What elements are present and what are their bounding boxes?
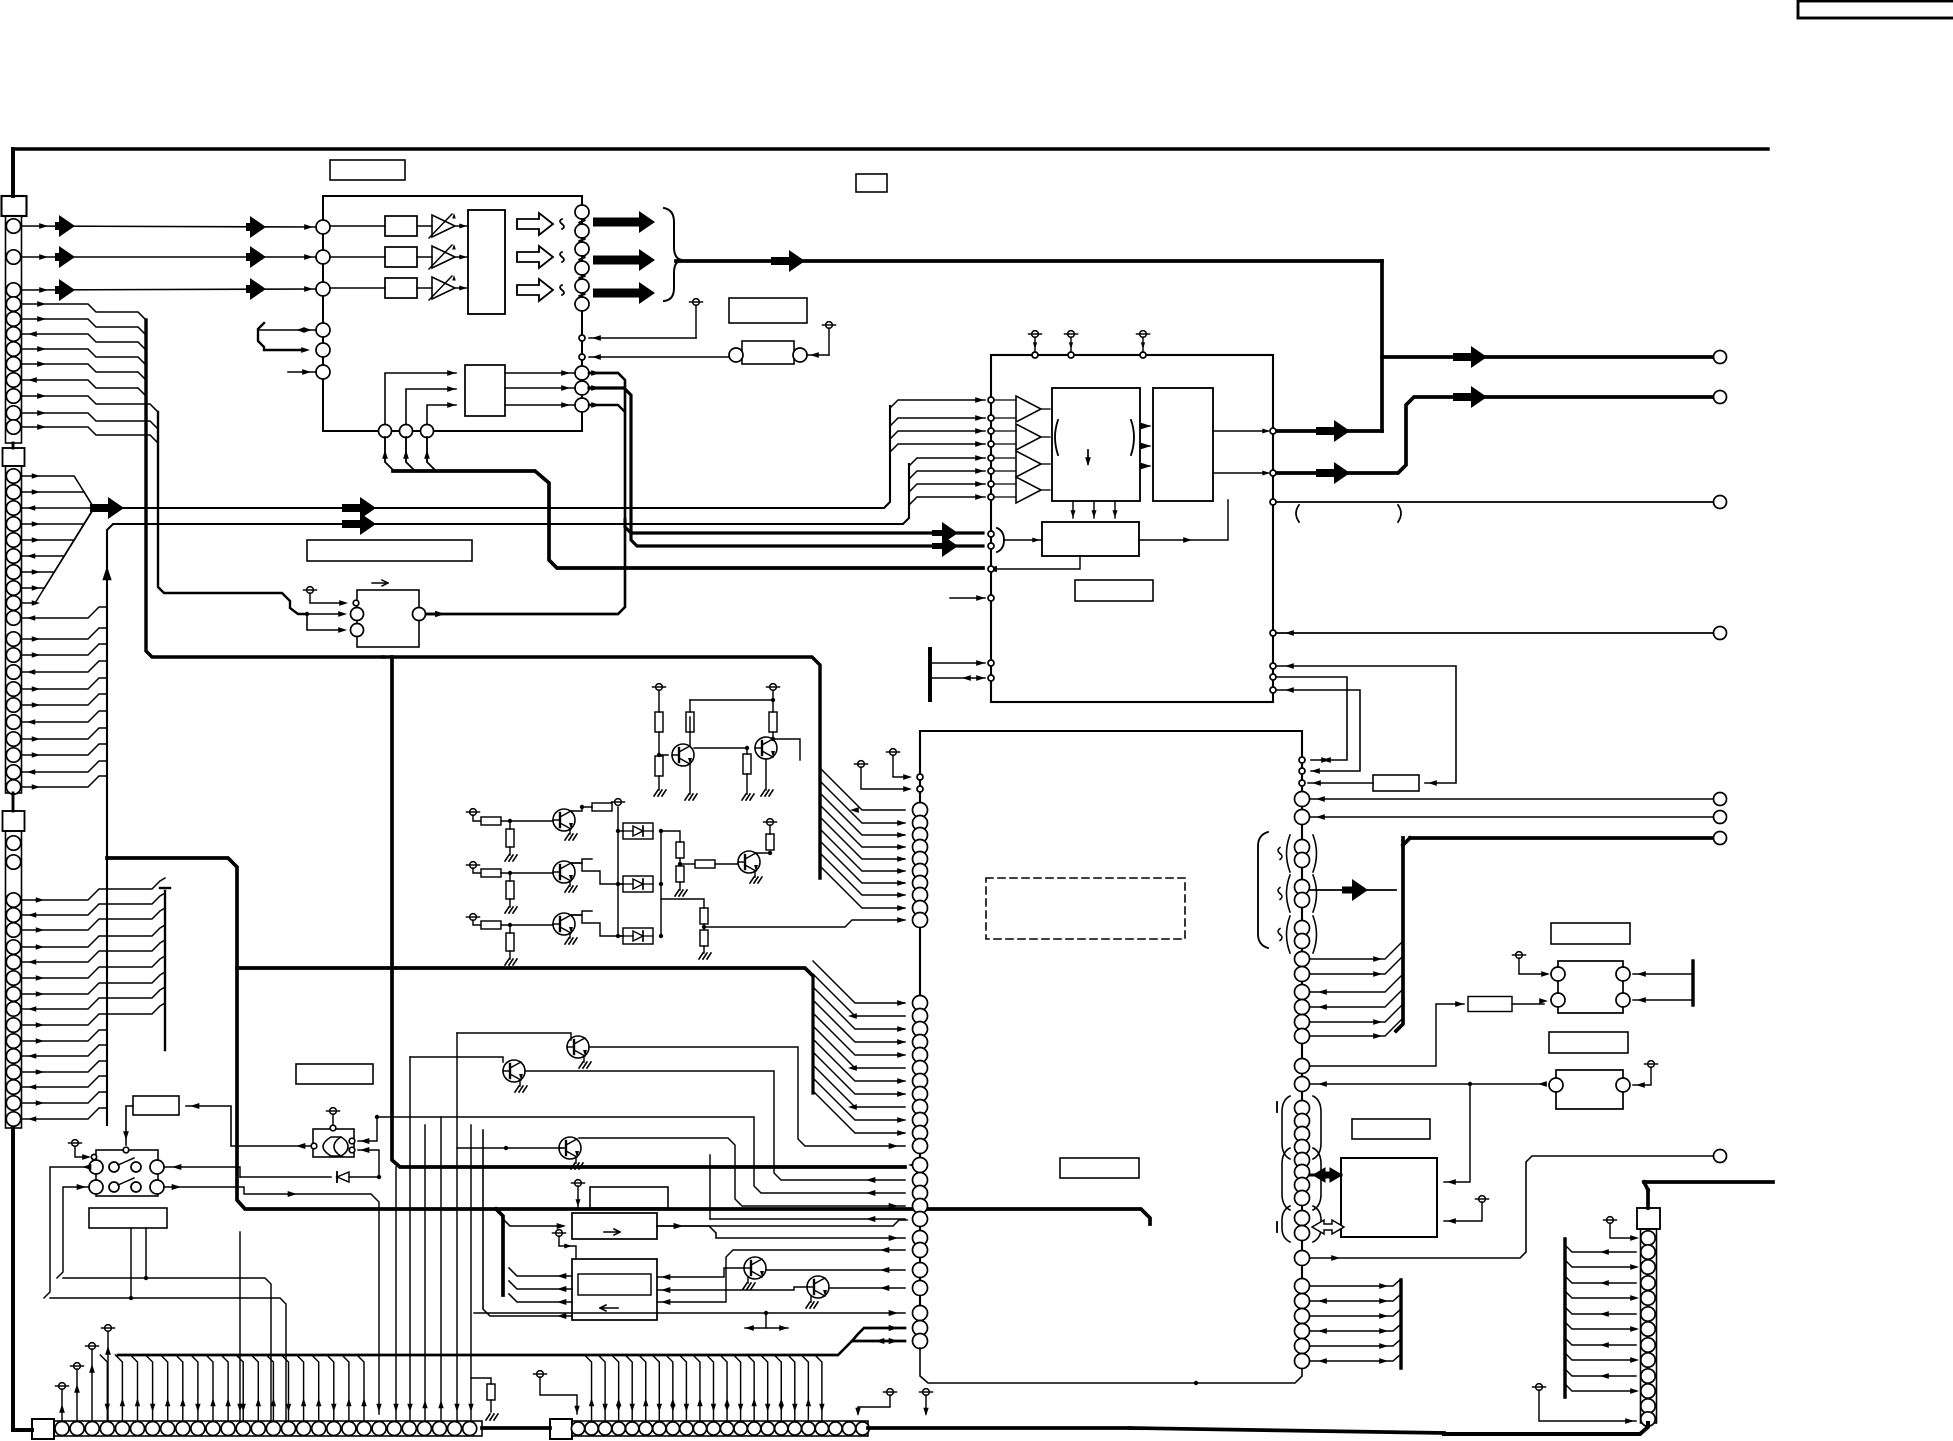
wire Q1 collector link (690, 699, 773, 701)
wire box3 to pin 1238 (657, 1226, 905, 1238)
wire fan to pin y1029 (813, 987, 905, 1029)
block U2 outline (991, 355, 1273, 702)
connector CN1 pin y427 (6, 420, 20, 434)
block U1 bottom pin 1 (575, 366, 589, 380)
wire Q3 collector (570, 807, 592, 811)
box4 servo eq (572, 1259, 657, 1320)
wire riser x131 (130, 1228, 132, 1298)
wire U2 to terminal y502 (1276, 501, 1714, 503)
block U2 SDRAM (1042, 522, 1139, 556)
block U3 left pin y810 (913, 803, 928, 818)
block U3 right pin y974 (1295, 967, 1310, 982)
terminal SW1 (72, 1140, 79, 1147)
terminal R16 (767, 819, 774, 826)
wire 1470 down (1444, 1084, 1470, 1182)
wire Tbar to U5 b (1633, 999, 1693, 1001)
resistor R16 (766, 834, 774, 850)
label box L4 wide (307, 540, 472, 561)
wire drop x441 (440, 1117, 442, 1421)
wire SDRAM in from bus (1004, 539, 1042, 541)
wire riser CN6 x821 (815, 1355, 822, 1421)
connector CN4 pin x122 (115, 1422, 129, 1436)
wire funnel bus J x165 (164, 891, 166, 1050)
bus arrow out y222 (593, 211, 655, 233)
block U2 left pins y400/418 (988, 397, 994, 403)
bracket pair label (1296, 505, 1299, 522)
block U2 osc pin2 (988, 675, 994, 681)
wire bus F jogs to U2 (909, 458, 985, 466)
wire CN3 pinB4 branch (21, 1076, 107, 1087)
resistor R5 (743, 754, 751, 774)
label box L1 (729, 298, 807, 323)
wire Q8 base (410, 1056, 508, 1058)
wire PLL out 2 (505, 387, 575, 389)
wire bus y431 from U2 (1278, 429, 1382, 433)
terminal CN4-4 (105, 1325, 112, 1332)
wire CN3 pin6 branch (21, 956, 165, 978)
big bracket left (1258, 832, 1268, 948)
wire riser CN4 x288 (282, 1355, 289, 1421)
ground R18 (699, 953, 703, 959)
connector CN6 pin x781 (775, 1422, 788, 1435)
wire Tbar to CN5 y1391 (1565, 1384, 1636, 1391)
wire U3 to Tbar y1316 (1310, 1309, 1401, 1316)
wire fan to pin y871 (820, 829, 905, 871)
terminal U7 a (1479, 1196, 1486, 1203)
tracking arrows symbol (765, 1313, 767, 1328)
junction pin J2 (400, 425, 413, 438)
wire CN3 pin5 branch (21, 940, 165, 962)
terminal CN6-2 (887, 1389, 894, 1396)
wire box3 out (657, 1220, 907, 1226)
connector CN6 pin x632 (626, 1422, 639, 1435)
wire xtal net c (1276, 690, 1360, 771)
block U1 PLL box (465, 365, 505, 416)
connector CN6 pin x699 (693, 1422, 706, 1435)
wire thick right bus (1646, 1190, 1650, 1208)
wire U2 pin rst stub (988, 595, 994, 601)
block U1 outline (323, 196, 582, 431)
wire DAC out 2 (1213, 472, 1268, 474)
wire dist bus jog upper (852, 1328, 905, 1341)
component U5 body (1558, 961, 1623, 1013)
connector CN2 pin y524 (6, 517, 20, 531)
wire riser CN4 x228 (221, 1355, 228, 1421)
amplifier A2 (432, 246, 455, 268)
wire R1 to Q1 base (659, 732, 668, 755)
wire CN3 pinB1 branch (21, 1030, 107, 1041)
connector CN5 pin y1267 (1641, 1260, 1655, 1274)
connector CN3 pin y1119 (6, 1112, 20, 1126)
wire riser CN4 x364 (357, 1355, 364, 1421)
wire CN3 pin1 branch (21, 878, 165, 900)
component U6 body (1556, 1070, 1623, 1109)
wire fan to pin y1055 (813, 1013, 905, 1055)
wire riser CN6 x659 (652, 1355, 659, 1421)
wire Tbar to CN5 y1329 (1565, 1322, 1636, 1329)
gate U8 box (357, 590, 419, 647)
wire U2 pin clk (988, 566, 994, 572)
wire top border (13, 147, 1768, 150)
connector CN1 pin y396 (6, 389, 20, 403)
connector CN4 pin x62 (55, 1422, 69, 1436)
block U1 bottom pin 3 (575, 398, 589, 412)
gate U4 out bubble (311, 1143, 317, 1149)
block U2 xtal pin c (1270, 687, 1276, 693)
terminal out 4 (1714, 627, 1727, 640)
block U3 pins DL (913, 1231, 928, 1246)
wire riser CN4 x318 (312, 1355, 319, 1421)
terminal U8 (307, 587, 314, 594)
connector CN4 pin x92 (85, 1422, 99, 1436)
terminal Q3 in (470, 809, 477, 816)
label box L3 (856, 174, 887, 192)
block U3 pins bracket B1 (1295, 1101, 1310, 1116)
box3 servo drive (572, 1213, 657, 1239)
block U1 right pin 4 (575, 261, 589, 275)
connector CN4 pin x288 (282, 1422, 296, 1436)
wire fan to pin y1016 (813, 974, 905, 1016)
wire out y1258 (1295, 1251, 1310, 1266)
wire CN3 pinB3 branch (21, 1061, 107, 1072)
label box U2 internal (1075, 580, 1153, 601)
block U2 top pin x1143 (1140, 352, 1146, 358)
bus arrow out y260 (593, 249, 655, 271)
wire DSP to SDRAM legs (1072, 501, 1074, 518)
wire drop x240 (239, 1232, 241, 1421)
wire fan to pin y847 (820, 805, 905, 847)
wire riser CN4 x273 (266, 1355, 273, 1421)
connector CN5 header (1637, 1208, 1660, 1229)
amplifier U2-A490 (1016, 477, 1041, 503)
wire CN3 pinB6 branch (21, 1108, 107, 1119)
gate U4 shape (323, 1137, 348, 1156)
block U3 right pin y1007 (1295, 1000, 1310, 1015)
wire thick bus H x392 (392, 657, 905, 1167)
T-bar U3 bottom right (1399, 1280, 1402, 1368)
wire riser CN4 x348 (342, 1355, 349, 1421)
connector CN4 pin x273 (266, 1422, 280, 1436)
label box L2 top (330, 160, 405, 180)
wire Tbar to CN5 y1252 (1565, 1245, 1636, 1252)
connector CN3 pin y962 (6, 955, 20, 969)
block U3 right pin y992 (1295, 985, 1310, 1000)
block U3 left pin y835 (913, 828, 928, 843)
block U1 inner matrix (468, 210, 505, 314)
transistor Q9 (559, 1137, 581, 1159)
connector CN6 pin x659 (653, 1422, 666, 1435)
block U1 inner filter 1 (385, 216, 417, 236)
wire CN3 pin7 branch (21, 972, 165, 994)
gate U4 in bubbles (349, 1138, 355, 1144)
wire bus C thick y471 (393, 471, 983, 568)
wire CN1 to CN2 link (12, 443, 15, 448)
wire thick bus to terminal y838 (1410, 836, 1714, 840)
connector CN6 pin x605 (599, 1422, 612, 1435)
block U1 aux pin a (579, 335, 585, 341)
block U3 right pin y1036 (1295, 1029, 1310, 1044)
wire DAC out 1 (1213, 430, 1268, 432)
connector CN5 pin y1298 (1641, 1291, 1655, 1305)
block U1 left pin 5 (316, 343, 330, 357)
wire fan to pin y810 (820, 768, 905, 810)
wire riser CN6 x767 (761, 1355, 768, 1421)
connector CN4 pin x348 (342, 1422, 356, 1436)
connector CN3 pin y843 (6, 836, 20, 850)
terminal CN6-1 (537, 1371, 544, 1378)
crystal X1 pin left (729, 348, 743, 362)
label box xosc (1373, 775, 1419, 791)
wire box4 in y1289 to Q11 base (657, 1287, 807, 1290)
resistor R14 (676, 866, 684, 882)
terminal U4 (330, 1108, 337, 1115)
block U3 left pin y883 (913, 876, 928, 891)
transistor Q8 (503, 1060, 525, 1082)
connector CN1 pin y257 (6, 250, 20, 264)
connector CN5 pin y1345 (1641, 1338, 1655, 1352)
block U1 right pin 6 (575, 297, 589, 311)
wire left border lower (11, 1128, 15, 1430)
gate U8 arrow glyph (372, 580, 388, 586)
connector CN4 pin x318 (312, 1422, 326, 1436)
wire bus E y508 (124, 406, 890, 508)
terminal U2 top x1143 (1140, 331, 1147, 338)
connector CN6 pin x849 (842, 1422, 855, 1435)
wire R6 to Q3 (501, 820, 553, 822)
wire xtal net b (1276, 677, 1347, 760)
wire CN1 pin2 to block U1 input (21, 256, 316, 258)
block U1 right pin 5 (575, 279, 589, 293)
ground Q7 (583, 1056, 585, 1062)
ground Q1b (685, 794, 689, 800)
connector CN2 body (6, 466, 22, 793)
block U3 left pin y1055 (913, 1048, 928, 1063)
connector CN2 pin y639 (6, 632, 20, 646)
wire fan R y959 (1310, 941, 1403, 959)
ground Q10 (747, 1277, 749, 1283)
connector CN3 pin y994 (6, 987, 20, 1001)
wire CN1 pin3 to block U1 input (21, 289, 316, 290)
wire CN3 pin4 branch (21, 925, 165, 947)
wire CN1 pin5 bus branch (21, 319, 146, 335)
bus arrow out y293 (593, 282, 655, 304)
wire switch right a (164, 1167, 240, 1177)
connector CN6 pin x713 (707, 1422, 720, 1435)
wire riser CN6 x740 (734, 1355, 741, 1421)
ground R22 (486, 1414, 490, 1420)
wire fan to pin y1120 (813, 1078, 905, 1120)
connector CN6 pin x578 (571, 1422, 584, 1435)
connector CN1 pin y413 (6, 406, 20, 420)
connector CN6 pin x672 (666, 1422, 679, 1435)
wire riser CN6 x808 (801, 1355, 808, 1421)
wire PLL out 1 (505, 372, 575, 374)
label box U3 internal (1060, 1158, 1139, 1178)
wire Tbar to CN5 y1376 (1565, 1369, 1636, 1376)
wire thick bus I y1209 riser (496, 1209, 503, 1295)
wire Q9 out (579, 1138, 905, 1206)
wire fan to pin y1003 (813, 961, 905, 1003)
wire Q8 out (525, 1071, 905, 1180)
wire CN4-CN6 link (482, 1426, 550, 1430)
wire U1 out pins to bus D (426, 373, 625, 614)
transistor Q2 (755, 737, 777, 759)
connector CN2 pin y705 (6, 698, 20, 712)
connector CN6 pin x794 (788, 1422, 801, 1435)
wire CN1 pin1 to block U1 input (21, 226, 316, 227)
wire U3 bottom link (920, 1348, 1302, 1383)
wire SDRAM out (1139, 500, 1228, 540)
connector CN3 pin y862 (6, 855, 20, 869)
connector CN6 pin x808 (802, 1422, 815, 1435)
amplifier U2-A409 (1016, 396, 1041, 422)
wire CN1 pin6 bus branch (21, 334, 146, 350)
wire U4 output (186, 1106, 311, 1146)
wire rail to R13 (661, 831, 680, 842)
wire switch right b (164, 1187, 379, 1414)
wire riser CN4 x243 (236, 1355, 243, 1421)
wire L-link 2 (50, 1298, 286, 1421)
connector CN5 pin y1406 (1641, 1399, 1655, 1413)
connector CN5 pin y1391 (1641, 1384, 1655, 1398)
label box U7 (1352, 1119, 1430, 1139)
block U1 right pin 3 (575, 242, 589, 256)
resistor R1 (655, 712, 663, 732)
wire CN1 pin11 bus branch (21, 413, 158, 429)
wire DSP-DAC y426 (1140, 425, 1150, 427)
terminal CN5 bottom (1536, 1384, 1543, 1391)
T-bar right (1691, 961, 1694, 1005)
wire fan R y974 (1310, 956, 1403, 974)
block U3 left pin y847 (913, 840, 928, 855)
terminal servo (575, 1180, 582, 1187)
wire CN3 pinB2 branch (21, 1045, 107, 1056)
wire riser CN4 x137 (131, 1355, 138, 1421)
connector CN4 pin x213 (206, 1422, 220, 1436)
connector CN6 pin x767 (761, 1422, 774, 1435)
wire bus B vertical (158, 412, 307, 614)
transistor Q5 (553, 913, 575, 935)
connector CN2 pin y755 (6, 748, 20, 762)
terminal U3b (858, 761, 865, 768)
connector CN4 pin x77 (70, 1422, 84, 1436)
wire gate inputs from right (358, 1117, 377, 1141)
block U2 right pin 4 (1270, 630, 1276, 636)
hook bracket bus stub (258, 323, 305, 350)
wire U3 to Tbar y1301 (1310, 1294, 1401, 1301)
block U3 left pin y908 (913, 901, 928, 916)
connector CN2 pin y772 (6, 765, 20, 779)
wire Q2 collector (772, 732, 774, 740)
wire diode rail down (660, 899, 662, 936)
wire R20 to switch (126, 1106, 133, 1145)
wire R17 out to U3 (704, 920, 905, 927)
connector CN5 pin y1376 (1641, 1369, 1655, 1383)
terminal U3a (890, 749, 897, 756)
block U1 aux pin b (579, 354, 585, 360)
wire U8 input junction (307, 613, 341, 615)
wire fan bus lower (811, 978, 814, 1093)
wire U1 out pins to bus D2 (589, 388, 983, 546)
wire riser CN4 x167 (161, 1355, 168, 1421)
wire pin1219 stub (710, 1218, 905, 1220)
connector CN4 pin x424 (417, 1422, 431, 1436)
connector CN3 pin y1087 (6, 1080, 20, 1094)
wire R8 to Q5 (501, 924, 553, 926)
block U7 (1341, 1158, 1437, 1237)
block U3 left pin y1003 (913, 996, 928, 1011)
wire thick bus x1403 (1396, 838, 1403, 1031)
wire bus corner down x1382 (1380, 261, 1384, 431)
wire T1 to U1 (589, 337, 696, 339)
connector CN4 pin x409 (402, 1422, 416, 1436)
wire Q5 collector (570, 911, 592, 915)
wire CN1 pin8 bus branch (21, 364, 146, 380)
block U3 right pins pair3 (1295, 921, 1310, 936)
switch SW1 levers (118, 1158, 134, 1165)
wire Tbar to CN5 y1314 (1565, 1307, 1636, 1314)
wire fan to pin y1042 (813, 1000, 905, 1042)
transistor Q4 (553, 861, 575, 883)
wire U3 to Tbar y1286 (1310, 1279, 1401, 1286)
wire riser CN4 x122 (115, 1355, 122, 1421)
resistor R6 (481, 817, 501, 825)
connector CN4 pin x394 (387, 1422, 401, 1436)
wire drop x396 (395, 1167, 397, 1421)
terminal U2 top x1035 (1032, 331, 1039, 338)
connector CN4 pin x228 (221, 1422, 235, 1436)
block U2 xtal pin b (1270, 674, 1276, 680)
wire to terminal y817 (1310, 816, 1714, 818)
wire bus D3 thick (625, 520, 983, 533)
block U1 left pin 2 (316, 250, 330, 264)
wire drop x471 (470, 1125, 472, 1421)
crystal X1 body (742, 341, 794, 364)
block U3 small pin a (917, 774, 923, 780)
wire riser CN6 x645 (639, 1355, 646, 1421)
hollow arrow out 2 (517, 246, 553, 268)
wire fan to pin y823 (820, 781, 905, 823)
T-bar CN5 (1563, 1239, 1566, 1397)
connector CN2 pin y588 (6, 581, 20, 595)
connector CN2 pin y739 (6, 732, 20, 746)
wire bottom thick to CN5 (1444, 1423, 1648, 1434)
wire CN1 pin10 bus branch (21, 396, 158, 412)
ground Q8 (519, 1080, 521, 1086)
wire J2 riser (406, 437, 414, 470)
wire U3 to Tbar y1346 (1310, 1339, 1401, 1346)
wire diode rail right (661, 883, 680, 885)
brace right of U1 (664, 208, 682, 301)
ground R10 (505, 907, 509, 913)
resistor ladder segment 3 (579, 256, 585, 261)
wire J3 riser (427, 437, 435, 470)
block U1 inner filter 2 (385, 247, 417, 267)
wire riser CN6 x699 (693, 1355, 700, 1421)
resistor R21 (1468, 997, 1512, 1012)
resistor R18 (700, 930, 708, 946)
block U2 osc pin1 (988, 660, 994, 666)
terminal out 8 (1714, 1150, 1727, 1163)
block U2 pin y534 (988, 531, 994, 537)
wire bottom frame to CN4 (13, 1428, 32, 1432)
wire CN1 pin9 bus branch (21, 380, 146, 396)
connector CN3 pin y900 (6, 893, 20, 907)
block U3 right small pins (1299, 757, 1305, 763)
resistor R8 (481, 921, 501, 929)
wire riser CN6 x632 (625, 1355, 632, 1421)
connector CN4 pin x364 (357, 1422, 371, 1436)
